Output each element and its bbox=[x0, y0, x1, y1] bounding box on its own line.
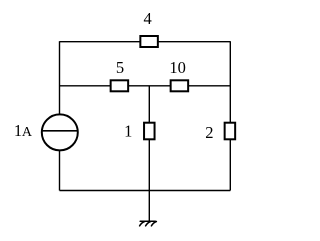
svg-text:2: 2 bbox=[205, 123, 213, 142]
svg-text:5: 5 bbox=[116, 58, 124, 77]
svg-text:1: 1 bbox=[124, 121, 132, 140]
svg-text:A: A bbox=[22, 125, 33, 140]
svg-text:10: 10 bbox=[169, 58, 186, 77]
svg-text:4: 4 bbox=[143, 9, 151, 28]
